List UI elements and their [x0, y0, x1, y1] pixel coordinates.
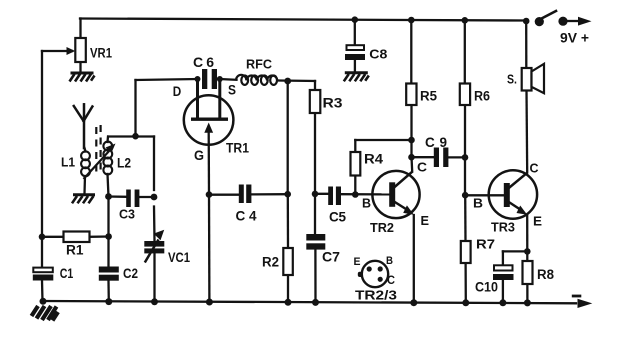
svg-text:C8: C8 — [369, 47, 387, 62]
svg-text:S.: S. — [507, 72, 517, 87]
svg-text:VC1: VC1 — [168, 250, 190, 265]
svg-text:E: E — [533, 215, 542, 229]
svg-text:C: C — [387, 275, 395, 287]
svg-text:C3: C3 — [119, 208, 135, 222]
svg-text:C10: C10 — [475, 280, 498, 295]
svg-text:C5: C5 — [329, 210, 346, 225]
svg-text:G: G — [194, 147, 204, 163]
svg-text:R4: R4 — [364, 152, 384, 167]
svg-text:B: B — [362, 197, 371, 211]
svg-text:VR1: VR1 — [90, 46, 112, 61]
svg-text:D: D — [173, 83, 182, 99]
svg-text:TR1: TR1 — [226, 141, 249, 156]
svg-text:L2: L2 — [117, 156, 131, 171]
svg-text:R8: R8 — [537, 267, 554, 282]
svg-text:RFC: RFC — [246, 57, 273, 72]
svg-text:B: B — [386, 255, 393, 267]
svg-text:R2: R2 — [262, 255, 279, 270]
svg-text:C: C — [417, 161, 427, 175]
svg-text:E: E — [354, 256, 361, 268]
svg-text:C7: C7 — [322, 250, 340, 265]
svg-text:R1: R1 — [66, 243, 84, 258]
svg-text:C2: C2 — [123, 266, 138, 281]
svg-text:9V +: 9V + — [560, 31, 589, 46]
svg-text:R6: R6 — [474, 89, 490, 104]
svg-text:S: S — [228, 82, 236, 98]
svg-text:L1: L1 — [61, 155, 75, 170]
svg-text:C: C — [530, 162, 539, 176]
svg-text:R5: R5 — [420, 89, 437, 104]
svg-text:TR2/3: TR2/3 — [355, 288, 397, 303]
svg-text:C1: C1 — [60, 266, 74, 281]
svg-text:TR3: TR3 — [491, 220, 515, 235]
svg-text:B: B — [473, 196, 483, 211]
svg-text:R7: R7 — [476, 237, 495, 252]
svg-text:R3: R3 — [323, 95, 343, 111]
svg-text:TR2: TR2 — [370, 221, 394, 235]
svg-text:E: E — [421, 214, 430, 228]
